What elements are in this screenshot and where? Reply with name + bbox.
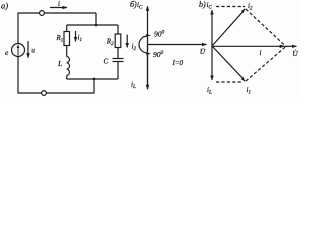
vector i2 v (212, 9, 245, 46)
svg-text:L: L (57, 59, 62, 68)
svg-text:а): а) (1, 1, 8, 11)
wire: R2 to C (117, 48, 119, 59)
svg-text:b): b) (199, 0, 206, 9)
svg-text:i: i (58, 0, 60, 8)
wire: R2 branch top (117, 25, 119, 34)
resistor R2 (115, 34, 121, 48)
dashed construction bottom (216, 81, 242, 83)
dashed diagonal upper (246, 9, 285, 46)
dashed diagonal lower (246, 47, 285, 81)
dashed construction top (216, 6, 245, 8)
svg-text:U̇: U̇ (200, 47, 206, 56)
axis vertical b (iC up, iL down) (147, 6, 149, 89)
wire: branch bus (67, 24, 118, 26)
wire: drop to return wire (18, 57, 94, 94)
current arrow i (50, 7, 67, 9)
current arrow i1 (75, 31, 77, 42)
wire: bottom bus (67, 78, 118, 80)
svg-text:б): б) (130, 0, 137, 9)
vector iL v (211, 46, 213, 80)
source E (circle with up arrow) (12, 44, 25, 57)
vector i v (212, 45, 284, 47)
vector iC v (211, 10, 213, 46)
wire: R1 branch top (66, 25, 68, 32)
node junction top (95, 24, 98, 27)
wire: R1 to L (66, 46, 68, 57)
node junction bottom (93, 78, 96, 81)
wire: drop from top bus to branch bus (95, 13, 97, 25)
resistor R1 (64, 32, 70, 46)
voltage arrow u (27, 41, 29, 58)
current arrow i2 (126, 35, 128, 48)
svg-text:i: i (260, 49, 262, 57)
vector i1 v (212, 46, 245, 81)
svg-text:U̇: U̇ (292, 49, 298, 58)
terminal circle bottom (42, 91, 47, 96)
axis horizontal b (U) (148, 44, 207, 46)
svg-text:u: u (31, 45, 35, 54)
wire: source top to top-left corner and top bus (18, 13, 96, 44)
angle arc b (139, 36, 148, 53)
inductor L (67, 57, 70, 76)
axis U v (284, 45, 296, 47)
capacitor C (113, 58, 124, 60)
wire: L to bottom bus (66, 76, 68, 80)
svg-text:C: C (104, 58, 109, 66)
terminal circle top (40, 11, 45, 16)
wire: C to bottom bus (117, 62, 119, 80)
svg-text:I=0: I=0 (172, 59, 184, 67)
